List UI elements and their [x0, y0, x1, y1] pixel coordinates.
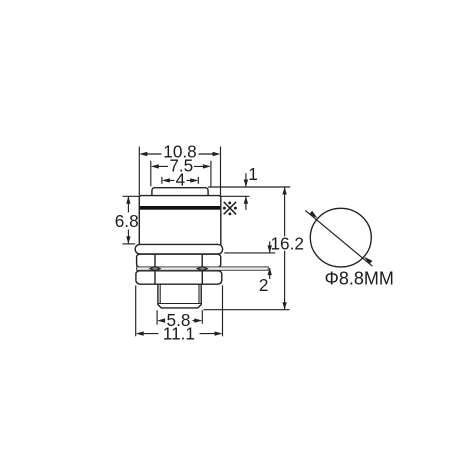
dim 4 tick right [197, 177, 199, 184]
hex nut upper facet line right [201, 255, 203, 268]
arrow dim2 down [268, 245, 272, 253]
dim 7.5 extension right [210, 161, 212, 187]
stem inner thread line right [198, 284, 200, 303]
flange disc [135, 244, 222, 254]
dim 10.8 extension left [138, 147, 140, 196]
dim 16.2 line upper [284, 187, 286, 236]
hex nut lower [136, 271, 222, 284]
dim 11.1 line [143, 333, 216, 335]
plunger (button cap) [152, 188, 208, 196]
washer strip edge-on [137, 266, 269, 271]
diameter arrow upper-left [309, 211, 317, 219]
arrow 10.8 left [139, 152, 147, 156]
stem bottom extension line (dim 16.2) [203, 309, 289, 311]
dim 4 tick left [161, 177, 163, 184]
diameter arrow lower-right [364, 257, 372, 264]
svg-text:16.2: 16.2 [270, 233, 303, 253]
dimension lines [123, 147, 291, 337]
hex nut upper facet line left [154, 255, 156, 268]
dim 6.8 line upper [127, 197, 129, 213]
dim 5.8 line [164, 320, 196, 322]
dim 2 line lower [269, 268, 271, 279]
plunger top extension line (shared by dim 1 and dim 16.2) [208, 186, 290, 188]
arrow 11.1 left [136, 331, 144, 335]
arrowheads [126, 152, 287, 336]
reference mark (kome) [223, 201, 237, 215]
circle diameter line [305, 210, 372, 266]
arrow 16.2 down [282, 302, 286, 310]
dim 6.8 extension top [123, 195, 140, 197]
dim 5.8 extension right [201, 310, 203, 324]
arrow 5.8 left [157, 318, 165, 322]
washer diamond left [150, 266, 160, 271]
dim 6.8 extension bottom [123, 243, 136, 245]
stem thread relief bottom line [159, 303, 201, 305]
dim 7.5 line [158, 165, 205, 167]
threaded stem outline [158, 284, 201, 308]
arrow 4 right [190, 178, 198, 182]
dim 2 line upper [269, 241, 271, 252]
flange bottom extension line (dim 2) [224, 252, 275, 254]
arrow 6.8 up [126, 196, 130, 204]
arrow 6.8 down [126, 236, 130, 244]
dim 4 line [169, 179, 192, 181]
arrow 11.1 right [215, 331, 223, 335]
arrow 7.5 left [151, 164, 159, 168]
washer diamond right [197, 266, 207, 271]
arrow 5.8 right [194, 318, 202, 322]
stem inner thread line left [159, 284, 161, 303]
arrow 4 left [162, 178, 170, 182]
arrow dim1 down [244, 180, 248, 188]
arrow 10.8 right [213, 152, 221, 156]
svg-text:4: 4 [176, 170, 186, 190]
svg-text:11.1: 11.1 [163, 323, 195, 343]
dim 5.8 extension left [156, 310, 158, 325]
hex nut upper [137, 254, 221, 267]
arrow dim2 up [268, 268, 272, 276]
switch body [139, 196, 221, 245]
dim 11.1 extension right [222, 286, 224, 337]
panel cutout circle [310, 208, 371, 267]
dim 10.8 extension right [220, 147, 222, 196]
svg-text:1: 1 [248, 164, 258, 184]
arrow 16.2 up [282, 187, 286, 195]
svg-text:2: 2 [259, 275, 269, 295]
arrow dim1 up [244, 196, 248, 204]
hex nut lower facet line right [201, 271, 203, 284]
dim 10.8 line [146, 153, 214, 155]
body top extension line right (dim 1) [221, 195, 250, 197]
hex nut lower facet line left [154, 271, 156, 284]
svg-text:Φ8.8MM: Φ8.8MM [325, 269, 394, 289]
dark rubber band on body [140, 206, 220, 210]
dim 7.5 extension left [150, 161, 152, 187]
dim 1 line upper [245, 173, 247, 186]
arrow 7.5 right [203, 164, 211, 168]
dim 11.1 extension left [135, 286, 137, 337]
dimension texts [115, 141, 304, 343]
dim 16.2 line lower [284, 251, 286, 310]
dim 6.8 line lower [127, 230, 129, 244]
dim 1 line lower [245, 197, 247, 210]
svg-text:6.8: 6.8 [115, 211, 139, 231]
